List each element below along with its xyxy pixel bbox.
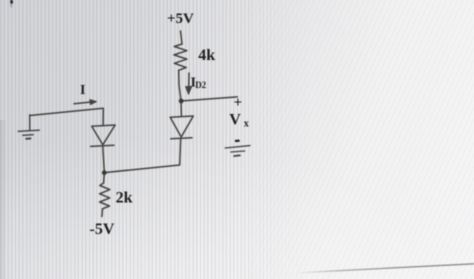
ground symbol right (225, 146, 250, 156)
svg-text:I: I (80, 83, 85, 98)
svg-text:-5V: -5V (90, 221, 115, 238)
ground symbol left (18, 115, 39, 139)
svg-text:+5V: +5V (167, 11, 194, 27)
label minus of Vx (235, 140, 240, 143)
diode D1 (91, 125, 116, 146)
label +5V (167, 11, 194, 27)
label plus of Vx (234, 95, 243, 111)
node B junction dot (102, 170, 107, 175)
resistor R1 4k (174, 44, 187, 70)
svg-text:x: x (244, 119, 249, 130)
label -5V (90, 221, 115, 238)
wire node A to Vx terminal (181, 97, 237, 101)
top edge tick (10, 0, 13, 7)
node A junction dot (179, 99, 184, 104)
label 4k (198, 47, 215, 64)
wire node A to diode D2 (180, 101, 182, 116)
screen edge line bottom right (297, 264, 474, 273)
label 2k (116, 189, 133, 206)
wire from +5V to resistor R1 (181, 31, 183, 44)
svg-text:4k: 4k (198, 47, 215, 64)
svg-text:V: V (229, 112, 241, 129)
current arrow I (74, 100, 97, 105)
svg-text:+: + (234, 95, 243, 111)
wire resistor R2 to -5V (101, 209, 104, 217)
current arrow ID2 (186, 73, 192, 94)
wire node B to resistor R2 (103, 173, 106, 183)
wire diode D2 to bottom node B (104, 138, 180, 172)
svg-text:D2: D2 (195, 80, 206, 90)
svg-text:2k: 2k (116, 189, 133, 206)
resistor R2 2k (100, 183, 110, 209)
label I of ID2 (191, 76, 207, 91)
label Vx (229, 112, 249, 130)
diode D2 (170, 116, 193, 139)
wire resistor R1 to node A (179, 70, 181, 101)
wire diode D1 to node B (103, 147, 105, 173)
wire ground to diode D1 (30, 108, 104, 125)
label I current (80, 83, 85, 98)
